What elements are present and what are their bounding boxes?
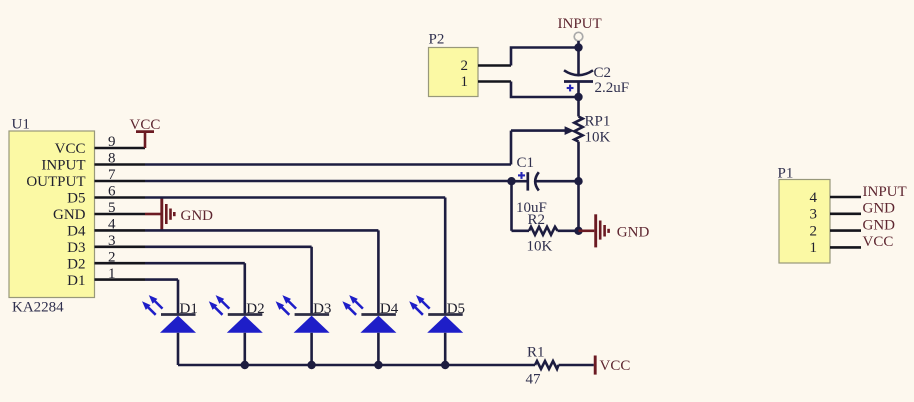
svg-text:2: 2 (810, 223, 818, 239)
svg-text:10K: 10K (585, 130, 611, 146)
svg-text:10K: 10K (527, 238, 553, 254)
svg-text:KA2284: KA2284 (12, 300, 64, 316)
svg-text:VCC: VCC (600, 358, 631, 374)
svg-text:3: 3 (108, 233, 116, 249)
svg-text:1: 1 (108, 266, 116, 282)
svg-text:D5: D5 (447, 301, 465, 317)
svg-text:1: 1 (810, 240, 818, 256)
svg-text:47: 47 (526, 372, 542, 388)
svg-text:9: 9 (108, 134, 116, 150)
svg-text:D3: D3 (313, 301, 331, 317)
svg-text:D2: D2 (67, 256, 85, 272)
svg-text:GND: GND (863, 217, 896, 233)
svg-text:VCC: VCC (863, 234, 894, 250)
svg-text:RP1: RP1 (585, 113, 611, 129)
svg-text:6: 6 (108, 184, 116, 200)
svg-text:GND: GND (617, 225, 650, 241)
svg-text:2: 2 (461, 58, 469, 74)
svg-text:VCC: VCC (55, 141, 86, 157)
svg-text:R2: R2 (528, 212, 546, 228)
svg-text:D1: D1 (180, 301, 198, 317)
svg-text:5: 5 (108, 200, 116, 216)
svg-text:2.2uF: 2.2uF (595, 80, 630, 96)
svg-text:INPUT: INPUT (863, 184, 907, 200)
svg-text:GND: GND (863, 201, 896, 217)
svg-text:4: 4 (810, 190, 818, 206)
svg-text:INPUT: INPUT (41, 158, 85, 174)
svg-text:1: 1 (461, 74, 469, 90)
svg-text:2: 2 (108, 249, 116, 265)
svg-text:INPUT: INPUT (558, 16, 602, 32)
svg-text:D5: D5 (67, 191, 85, 207)
svg-text:4: 4 (108, 217, 116, 233)
svg-text:D2: D2 (246, 301, 264, 317)
svg-text:P2: P2 (429, 32, 445, 48)
svg-text:D3: D3 (67, 240, 85, 256)
svg-text:R1: R1 (527, 345, 545, 361)
svg-text:7: 7 (108, 167, 116, 183)
svg-text:OUTPUT: OUTPUT (26, 174, 85, 190)
svg-text:D4: D4 (380, 301, 399, 317)
svg-text:D1: D1 (67, 273, 85, 289)
svg-text:GND: GND (181, 208, 214, 224)
svg-text:D4: D4 (67, 224, 86, 240)
svg-text:C1: C1 (517, 155, 535, 171)
svg-text:3: 3 (810, 207, 818, 223)
svg-text:GND: GND (53, 207, 86, 223)
svg-text:C2: C2 (594, 65, 612, 81)
svg-text:8: 8 (108, 151, 116, 167)
svg-text:P1: P1 (778, 166, 794, 182)
svg-text:U1: U1 (12, 116, 30, 132)
